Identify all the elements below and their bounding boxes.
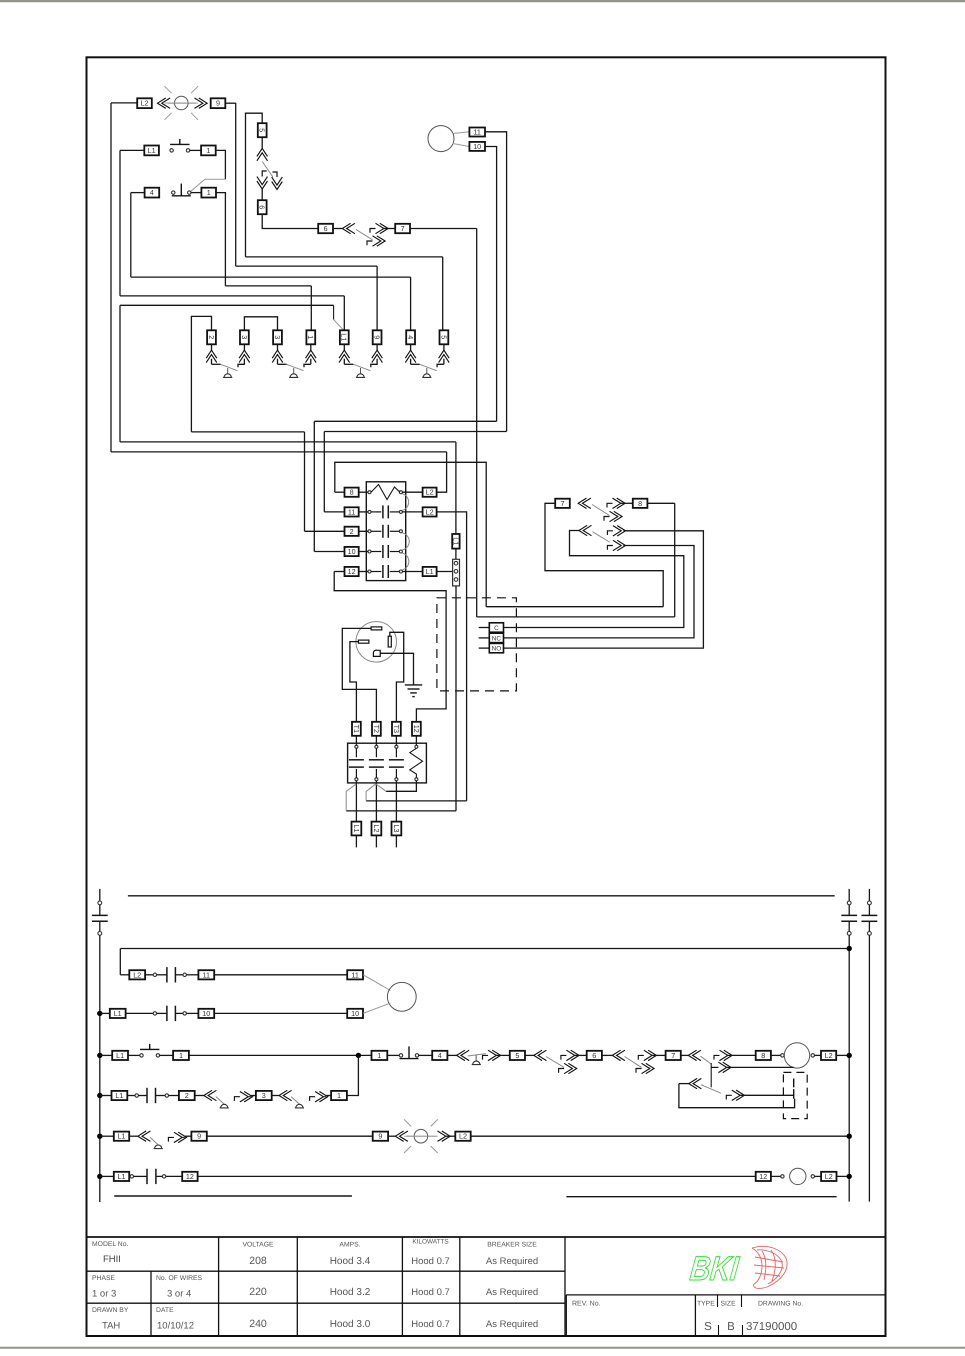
contactor K1 left terminal box 10 — [345, 547, 359, 556]
wire row C run to junction — [189, 1054, 371, 1056]
lamp DS1 (hood light) — [165, 86, 199, 120]
wire net L1 drop to fuse L1 — [455, 442, 457, 534]
wire box to terminal — [359, 571, 368, 573]
wire net 11 horizontal — [324, 431, 506, 433]
svg-text:11: 11 — [351, 970, 358, 979]
svg-text:3: 3 — [273, 335, 282, 339]
svg-text:Hood 3.2: Hood 3.2 — [330, 1287, 371, 1298]
row D box 2 — [179, 1091, 195, 1100]
svg-text:L1: L1 — [115, 1091, 123, 1100]
contactor K2 contact — [355, 748, 357, 757]
row D receptacle 2-3 — [204, 1090, 217, 1100]
wire row D lead — [100, 1095, 112, 1097]
svg-text:220: 220 — [249, 1286, 267, 1298]
svg-text:2: 2 — [185, 1091, 189, 1100]
svg-text:3 or 4: 3 or 4 — [167, 1289, 191, 1300]
contactor K1 left terminal box 12 — [345, 567, 359, 576]
row C blade 6-7 open — [625, 1057, 642, 1068]
lamp connector box 3 — [240, 330, 249, 344]
wire net 10 drop to contactor box 10 — [313, 421, 315, 551]
svg-text:2: 2 — [207, 335, 216, 339]
thermostat terminal box NC — [489, 633, 503, 642]
supply lead L2 — [375, 835, 377, 847]
wire net 11 drop to contactor box 11 — [323, 432, 325, 512]
lamp connector box 2 — [207, 330, 216, 344]
wire and terminal — [771, 1175, 781, 1177]
svg-text:KILOWATTS: KILOWATTS — [412, 1239, 448, 1246]
wire row E to rail — [471, 1135, 850, 1137]
disconnect box 8 — [633, 499, 648, 508]
plug alt position 3 — [726, 1090, 744, 1100]
row C box 6 — [587, 1051, 602, 1060]
wire row B lead — [100, 1012, 110, 1014]
svg-text:10: 10 — [351, 1009, 359, 1018]
svg-text:REV. No.: REV. No. — [572, 1301, 601, 1308]
wire box 8 right — [648, 502, 675, 504]
wire row F long run — [198, 1175, 756, 1177]
svg-text:6: 6 — [324, 224, 328, 233]
lamp socket right hook — [304, 364, 311, 367]
svg-text:L2: L2 — [426, 488, 434, 497]
svg-text:L1: L1 — [114, 1009, 122, 1018]
wire net 2 feed vertical (lamp box 2) — [191, 316, 211, 432]
svg-text:As Required: As Required — [486, 1319, 538, 1330]
junction dot row D — [97, 1093, 102, 1098]
row C box 1 right — [372, 1051, 388, 1060]
wire alt3 to contact bar — [740, 1094, 793, 1096]
row E plug lamp — [438, 1131, 451, 1141]
svg-text:MODEL No.: MODEL No. — [92, 1241, 128, 1248]
wire box to terminal — [415, 736, 417, 746]
junction dot row C — [97, 1053, 102, 1058]
svg-text:B: B — [727, 1321, 735, 1333]
svg-text:L2: L2 — [133, 970, 141, 979]
plug 6-7 alternate low — [367, 236, 385, 246]
thermostat contact bar upper — [793, 1079, 795, 1088]
thermostat plug NC lower — [607, 540, 625, 550]
contactor K1 row 3 terminals — [368, 530, 371, 533]
title block row line 1 — [87, 1270, 566, 1272]
row F contact 12 — [130, 1169, 166, 1184]
connector plug (top lamp row) — [195, 98, 208, 108]
row C receptacle 5-6 — [534, 1050, 547, 1060]
wire — [446, 1135, 455, 1137]
wire — [128, 1175, 131, 1177]
wire net 12 loop under contactor — [334, 572, 446, 722]
svg-text:Hood 0.7: Hood 0.7 — [411, 1256, 450, 1267]
wire — [169, 1095, 179, 1097]
svg-text:L3: L3 — [392, 825, 401, 833]
row B box L1 — [110, 1009, 126, 1018]
wire to rail — [836, 1054, 849, 1056]
row E box 9 right — [373, 1132, 388, 1141]
lamp connector box 1 — [306, 330, 315, 344]
svg-text:1 or 3: 1 or 3 — [92, 1289, 116, 1300]
wire contactor box 11 stub — [324, 511, 344, 513]
contactor K2 terminals — [375, 745, 378, 748]
svg-text:TAH: TAH — [102, 1321, 120, 1332]
wire box6 down and right — [262, 214, 318, 228]
connector receptacle (top lamp row) — [158, 98, 171, 108]
title block type col line — [694, 1295, 696, 1336]
svg-text:12: 12 — [412, 725, 421, 733]
svg-text:7: 7 — [671, 1051, 675, 1060]
wire alt2 to contact bar — [727, 1066, 794, 1068]
lamp socket right hook — [238, 364, 245, 367]
svg-text:12: 12 — [186, 1172, 194, 1181]
svg-text:5: 5 — [439, 335, 448, 339]
lamp connector box 3 — [273, 330, 282, 344]
lamp socket dome — [289, 374, 298, 378]
blower motor circle top — [428, 126, 454, 152]
link row A to motor — [363, 975, 390, 991]
wire net 9 vertical — [235, 103, 237, 266]
row C receptacle 4-5 — [457, 1050, 470, 1060]
wire — [166, 1175, 182, 1177]
switch blade 6-7 open — [356, 230, 373, 240]
BKI logo swoosh — [752, 1246, 787, 1288]
row C pushbutton stop NC — [399, 1046, 418, 1058]
lamp socket right hook — [371, 364, 378, 367]
wire — [575, 1054, 588, 1056]
contactor K1 row 5 terminals — [368, 570, 371, 573]
lamp socket hinge wire — [212, 363, 221, 365]
ground symbol — [405, 684, 422, 686]
receptacle chevrons up (hood disconnect) — [257, 148, 268, 160]
svg-text:NO: NO — [492, 646, 502, 653]
svg-text:3: 3 — [240, 335, 249, 339]
row B contact 10 — [153, 1006, 186, 1021]
lamp socket hinge wire — [278, 363, 287, 365]
contactor K2 top box 12 — [412, 722, 421, 736]
wire motor 10 to net 10 — [485, 147, 497, 422]
terminal box 9 (top lamp row) — [211, 98, 226, 108]
plug alt position 2 — [718, 1062, 731, 1072]
wire net L1 lower segment to contactor — [119, 305, 121, 442]
plug chevrons down inline — [257, 177, 268, 189]
row F exhaust motor circle — [790, 1168, 806, 1184]
wire C to receptacle — [504, 531, 684, 628]
tier2 blade — [701, 1085, 721, 1094]
wire — [127, 1095, 135, 1097]
svg-text:3: 3 — [262, 1091, 266, 1100]
row C box 7 — [666, 1051, 681, 1060]
wire — [272, 1095, 279, 1097]
wire net L2 drop to contactor row1 L2 — [436, 452, 446, 492]
svg-text:6: 6 — [592, 1051, 596, 1060]
lamp connector box 5 — [439, 330, 448, 344]
svg-text:T3: T3 — [392, 725, 401, 733]
wire thin through lamp — [168, 102, 196, 104]
lamp socket right hook — [437, 364, 444, 367]
wire row E long run — [207, 1135, 373, 1137]
wire box to terminal — [395, 736, 397, 746]
terminal box 1 (light switch row) — [201, 146, 216, 156]
svg-text:1: 1 — [377, 1051, 381, 1060]
wire net 7 vertical drop — [476, 229, 478, 617]
wire net L2 run to contactor L2 — [111, 451, 447, 453]
terminal box 4 (switch row) — [145, 188, 160, 198]
wire thin through lamp E — [406, 1135, 436, 1137]
junction dot row C-D — [356, 1053, 361, 1058]
svg-text:DRAWN BY: DRAWN BY — [92, 1307, 129, 1314]
row E lamp — [404, 1119, 438, 1153]
wire plug to box 6 vertical — [261, 189, 263, 200]
contactor K2 contact — [395, 748, 397, 757]
wire NO to plug upper — [504, 531, 704, 648]
row E plug — [168, 1132, 186, 1142]
svg-text:4: 4 — [406, 335, 415, 339]
wire L1 down to line side — [455, 586, 457, 811]
wire net 8 horizontal to disconnect — [486, 606, 663, 608]
wire and terminal — [771, 1054, 781, 1056]
row E box L1 — [114, 1132, 129, 1141]
svg-text:4: 4 — [150, 188, 154, 197]
wire net 1 horizontal — [225, 285, 311, 287]
wire contactor box 10 stub — [314, 551, 344, 553]
title block col line model — [218, 1237, 220, 1336]
lamp connector chevrons L1 — [343, 344, 345, 350]
lamp connector chevrons 5 — [443, 344, 445, 350]
wire — [681, 1054, 689, 1056]
wire from box 9 to net 9 drop — [225, 102, 235, 104]
row D plug 3-1 — [310, 1092, 328, 1102]
wire box to terminal — [359, 530, 368, 532]
wire row F to rail — [837, 1175, 850, 1177]
wire — [195, 1095, 204, 1097]
row C box 5 — [510, 1051, 525, 1060]
contactor K2 terminals — [415, 745, 418, 748]
row E dome — [154, 1145, 163, 1149]
contactor K2 terminals — [395, 745, 398, 748]
wire box to terminal — [359, 511, 368, 513]
wire box to terminal — [359, 551, 368, 553]
wire rung drop to row A — [119, 949, 121, 975]
wire net 5 drop to lamp box 5 — [442, 257, 444, 331]
wire contactor box 12 stub — [334, 571, 344, 573]
wire L2 line side horizontal — [366, 800, 467, 802]
supply box L3 — [392, 822, 402, 836]
svg-text:8: 8 — [761, 1051, 765, 1060]
svg-text:7: 7 — [401, 224, 405, 233]
plug disconnect inline (7-8) — [607, 498, 625, 508]
row E box 9 — [191, 1132, 206, 1141]
tier2 loop wire — [679, 1084, 795, 1108]
svg-text:NC: NC — [492, 635, 502, 642]
lamp socket blade — [287, 364, 304, 370]
row D box L1 — [112, 1091, 128, 1100]
wire net 2 horizontal run — [191, 431, 304, 433]
wire box5 to receptacle — [261, 137, 263, 148]
row C receptacle 6-7 — [612, 1050, 625, 1060]
svg-text:AMPS.: AMPS. — [339, 1242, 360, 1249]
wire pushbutton to box 1 — [190, 149, 202, 151]
row F box 12 right — [756, 1172, 771, 1181]
plug prong W — [388, 636, 391, 647]
row B box 10 — [198, 1009, 214, 1018]
title block sub col phase-wires — [150, 1271, 152, 1336]
junction dot row E — [97, 1134, 102, 1139]
wire — [418, 1054, 432, 1056]
wire — [145, 974, 153, 976]
contactor K1 right box L2 row2 — [423, 507, 437, 516]
svg-text:L1: L1 — [426, 567, 434, 576]
junction dot row B — [97, 1011, 102, 1016]
row C plug 6-7 low — [636, 1063, 654, 1073]
row C plug 7-8 inline — [714, 1050, 732, 1060]
plug disconnect lower (7-8) — [604, 511, 622, 521]
svg-text:L1: L1 — [352, 825, 361, 833]
wire net 7 riser to disconnect box 8 — [674, 503, 676, 617]
title block col line breaker — [564, 1237, 566, 1336]
blade disconnect 7-8 — [592, 505, 610, 516]
wire — [447, 1054, 456, 1056]
row C plug 4-5 — [483, 1050, 501, 1060]
wire tier2 lead — [679, 1083, 689, 1085]
contactor K1 contact row 4 — [371, 551, 381, 553]
wire net L1 horizontal to lamp L1 — [120, 295, 344, 297]
title block col line kilowatts — [459, 1237, 461, 1336]
thermostat stub C — [479, 627, 490, 629]
thermostat contact bar lower — [793, 1089, 795, 1099]
wire box to terminal — [375, 736, 377, 746]
row E blade — [150, 1137, 158, 1145]
title block col line amps — [401, 1237, 403, 1336]
wire plug to box 8 — [621, 502, 633, 504]
terminal box L1 (light switch row) — [144, 146, 159, 156]
svg-text:12: 12 — [348, 567, 356, 576]
hood motor circle — [387, 982, 416, 1011]
title block top line — [87, 1236, 886, 1238]
lamp connector chevrons 9 — [376, 344, 378, 350]
row A box L2 — [129, 970, 145, 979]
row E receptacle lamp — [395, 1131, 408, 1141]
wire row A long run — [214, 974, 347, 976]
plug prong ground — [373, 650, 380, 656]
wire plug W to T3 — [390, 632, 404, 722]
wire net 4 drop to lamp box 4 — [410, 277, 412, 330]
wire plug ground prong — [380, 653, 413, 685]
contactor K1 row 2 terminals — [368, 510, 371, 513]
lamp socket stem — [293, 368, 295, 374]
wire — [128, 1054, 139, 1056]
title block row line 2 — [87, 1302, 566, 1304]
svg-text:9: 9 — [197, 1132, 201, 1141]
row A box 11 — [198, 970, 214, 979]
svg-text:L1: L1 — [148, 146, 156, 155]
terminal box 6 horizontal — [318, 224, 333, 233]
svg-text:1: 1 — [306, 335, 315, 339]
dashed enclosure thermostat — [437, 598, 517, 691]
lamp socket blade — [221, 364, 238, 370]
contactor K1 contact row 3 — [371, 530, 381, 532]
row C box L1 — [112, 1051, 128, 1060]
svg-text:9: 9 — [373, 335, 382, 339]
wire net L1 drop to lamp box L1 — [343, 296, 345, 331]
terminal box 7 horizontal — [395, 224, 410, 233]
wire terminal to L1 row5 — [402, 571, 422, 573]
plug 6-7 inline — [370, 223, 388, 233]
wire pushbutton NC to box 1 — [191, 192, 202, 194]
row D receptacle 3-1 — [279, 1090, 292, 1100]
lamp connector chevrons 2 — [211, 344, 213, 350]
wire top lamp row feed — [111, 102, 137, 104]
row C box 1 — [173, 1051, 189, 1060]
svg-text:208: 208 — [249, 1255, 267, 1267]
row D blade 2 — [291, 1097, 299, 1105]
contactor K1 row 1 terminals — [368, 491, 371, 494]
svg-text:L1: L1 — [116, 1051, 124, 1060]
link terminal2 to L2 line — [366, 784, 376, 801]
svg-text:240: 240 — [249, 1318, 267, 1330]
svg-text:SIZE: SIZE — [721, 1301, 737, 1308]
svg-text:T2: T2 — [372, 725, 381, 733]
contactor K1 body — [366, 482, 405, 581]
svg-text:9: 9 — [216, 99, 220, 108]
row D plug 2-3 — [234, 1092, 252, 1102]
lamp socket stem — [360, 368, 362, 374]
contactor K2 top box T1 — [352, 722, 361, 736]
wire row3 right drop net 1 — [216, 193, 226, 286]
svg-text:4: 4 — [438, 1051, 442, 1060]
row F box 12 — [182, 1172, 197, 1181]
row D box 3 — [256, 1091, 272, 1100]
terminal strip 3-pole — [453, 559, 460, 586]
tier2 receptacle — [689, 1078, 702, 1088]
contactor K2 coil zigzag — [410, 748, 423, 778]
wire — [129, 1135, 138, 1137]
svg-text:1: 1 — [206, 146, 210, 155]
svg-text:DRAWING No.: DRAWING No. — [758, 1301, 803, 1308]
svg-text:12: 12 — [759, 1172, 767, 1181]
lamp socket dome — [422, 374, 431, 378]
contactor K2 top box T3 — [392, 722, 401, 736]
row D blade — [216, 1097, 224, 1105]
thermostat terminal box C — [489, 623, 503, 632]
svg-text:T1: T1 — [352, 725, 361, 733]
lamp socket dome — [356, 374, 365, 378]
connector box 6 vertical — [258, 200, 267, 214]
svg-text:10/10/12: 10/10/12 — [157, 1321, 194, 1332]
contactor K2 body — [348, 743, 427, 783]
wire net 1 drop to lamp box 1 — [310, 286, 312, 331]
wire net 5 horizontal — [246, 256, 443, 258]
svg-text:1: 1 — [337, 1091, 341, 1100]
lamp socket blade — [353, 364, 370, 370]
wire plug to box 7 — [384, 228, 395, 230]
wire net 2 drop to contactor box 2 — [304, 432, 306, 531]
wire row D to row C junction — [347, 1055, 358, 1095]
thermostat terminal box NO — [489, 643, 503, 652]
svg-text:FHII: FHII — [103, 1254, 121, 1265]
fuse box L1 vertical — [451, 534, 460, 549]
contactor K1 right box L1 row5 — [423, 567, 437, 576]
wire — [387, 1054, 399, 1056]
svg-text:7: 7 — [561, 499, 565, 508]
coil return wire — [386, 781, 416, 792]
junction dot row F — [97, 1174, 102, 1179]
wire — [497, 1054, 510, 1056]
row C pushbutton start NO — [140, 1044, 160, 1057]
title block rev row line — [566, 1294, 885, 1296]
wire box to terminal — [359, 491, 368, 493]
wire net 8 riser to disconnect box 7 — [545, 503, 663, 606]
svg-text:L1: L1 — [340, 333, 349, 341]
svg-text:As Required: As Required — [486, 1287, 538, 1298]
contactor K1 contact row 2 — [371, 511, 381, 513]
lamp connector chevrons 4 — [410, 344, 412, 350]
wire — [652, 1054, 665, 1056]
